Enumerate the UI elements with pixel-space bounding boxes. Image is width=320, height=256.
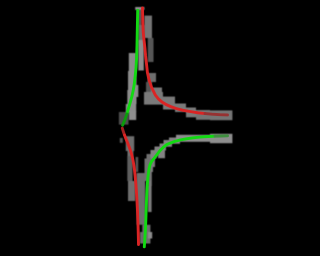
green curve lower-right dim end [215, 134, 228, 137]
red curve lower branch dim start [122, 128, 124, 135]
red curve upper-right dim end [205, 114, 228, 115]
green curve upper branch dim tip [123, 114, 127, 125]
red curve upper-right branch [143, 8, 206, 114]
green curve upper branch [127, 10, 138, 114]
red curve lower branch [125, 135, 139, 245]
green curve lower-right branch [144, 136, 215, 247]
